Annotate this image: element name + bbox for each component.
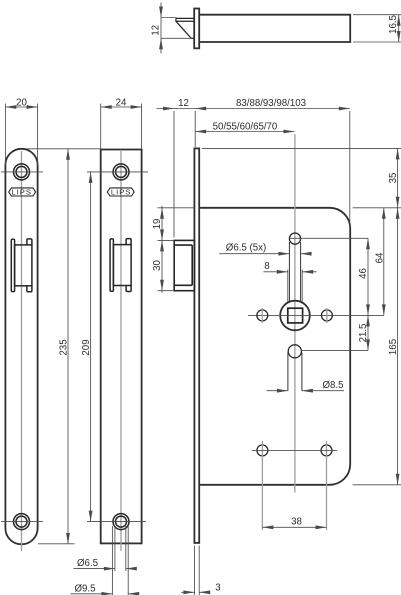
top view: lock case body (side) bbox=[199, 15, 350, 42]
svg-text:12: 12 bbox=[151, 25, 162, 36]
bottom left screw hole bbox=[257, 441, 268, 530]
svg-text:Ø6.5 (5x): Ø6.5 (5x) bbox=[226, 242, 266, 253]
dimension 19 (case top to latch) bbox=[152, 206, 194, 293]
right faceplate outline (24 mm, square ends) bbox=[101, 150, 142, 544]
svg-text:165: 165 bbox=[388, 339, 399, 355]
spindle square hole bbox=[288, 308, 303, 323]
svg-text:21.5: 21.5 bbox=[358, 324, 369, 343]
follower circle bbox=[280, 301, 310, 331]
hub hole extension line to dim 46 bbox=[289, 237, 368, 239]
main vertical centerline bbox=[294, 134, 296, 493]
right faceplate vertical centerline bbox=[120, 151, 122, 551]
svg-text:Ø6.5: Ø6.5 bbox=[77, 558, 98, 569]
leader diameter 6.5 (5x) bbox=[219, 242, 311, 255]
svg-text:30: 30 bbox=[152, 260, 163, 271]
svg-text:16.5: 16.5 bbox=[388, 15, 399, 34]
dimension 235 (left plate length) bbox=[25, 149, 101, 544]
svg-text:209: 209 bbox=[81, 339, 92, 355]
latch bolt (front view) bbox=[174, 240, 194, 290]
lower slot bbox=[288, 353, 302, 391]
svg-text:3: 3 bbox=[215, 582, 220, 593]
dimension 50/55/60/65/70 (backset) bbox=[195, 122, 294, 134]
left side hole diameter 6.5 bbox=[257, 308, 268, 323]
square extension lines for dim 8 bbox=[288, 270, 302, 304]
dimension diameter 6.5 (screw hole) bbox=[74, 526, 137, 571]
svg-text:8: 8 bbox=[264, 261, 269, 272]
bottom right screw hole bbox=[321, 441, 332, 530]
svg-text:20: 20 bbox=[16, 98, 27, 109]
dimension 20 (left plate width) bbox=[5, 98, 37, 166]
svg-text:235: 235 bbox=[59, 339, 70, 355]
left faceplate vertical centerline bbox=[21, 151, 23, 551]
lock case outline bbox=[199, 208, 350, 485]
dimension 12 (top view latch height) bbox=[151, 3, 193, 54]
right plate latch cutout bbox=[110, 239, 131, 292]
dimension 8 (spindle square) bbox=[263, 261, 316, 274]
LIPS logo right plate bbox=[107, 188, 134, 197]
left plate bottom screw hole bbox=[1, 514, 43, 530]
svg-text:12: 12 bbox=[178, 98, 189, 109]
lower hole diameter 8.5 bbox=[288, 345, 301, 358]
svg-text:35: 35 bbox=[388, 173, 399, 184]
dimension diameter 8.5 (cylinder slot) bbox=[267, 380, 345, 392]
dimension 165 (case height) bbox=[353, 208, 401, 485]
dimension 64 (case top to follower) bbox=[353, 208, 401, 316]
upper slot bbox=[289, 242, 300, 301]
dimension 46 (hub hole to follower) bbox=[358, 238, 370, 350]
lower hole extension line to dim 21.5 bbox=[302, 349, 368, 351]
dimension 12 (latch protrusion, main view) bbox=[157, 98, 350, 237]
dimension diameter 9.5 (countersink) bbox=[71, 526, 140, 595]
svg-text:38: 38 bbox=[291, 517, 302, 528]
svg-text:Ø8.5: Ø8.5 bbox=[322, 380, 343, 391]
top view: faceplate (side) bbox=[194, 9, 199, 49]
left plate latch cutout bbox=[11, 239, 32, 292]
dimension 83/88/93/98/103 (case depth) bbox=[236, 98, 350, 228]
dimension 38 (bottom hole spacing) bbox=[262, 517, 326, 530]
dimension 24 (right plate width) bbox=[101, 98, 142, 149]
svg-text:24: 24 bbox=[116, 98, 127, 109]
right plate bottom screw hole bbox=[113, 514, 129, 530]
top view: latch bolt (side) bbox=[176, 18, 194, 38]
svg-text:64: 64 bbox=[374, 252, 385, 263]
left plate top screw hole bbox=[1, 164, 43, 180]
left faceplate outline (20 mm, rounded ends) bbox=[5, 149, 37, 545]
LIPS logo left plate bbox=[9, 188, 36, 197]
dimension 3 (faceplate thickness) bbox=[181, 546, 220, 595]
svg-text:LIPS: LIPS bbox=[11, 188, 32, 197]
dimension 16.5 (top view case thickness) bbox=[353, 15, 401, 42]
dimension 21.5 (follower to lower hole) bbox=[358, 315, 370, 350]
dimension 209 (screw hole spacing) bbox=[81, 172, 148, 522]
svg-text:19: 19 bbox=[152, 219, 163, 230]
svg-text:46: 46 bbox=[358, 268, 369, 279]
dimension 30 (latch height) bbox=[152, 240, 174, 290]
svg-text:50/55/60/65/70: 50/55/60/65/70 bbox=[213, 122, 278, 133]
right plate top screw hole bbox=[113, 164, 129, 180]
follower horizontal centerline bbox=[248, 314, 384, 316]
main view faceplate bar bbox=[194, 148, 199, 543]
hub hole (top, one of 5x diameter 6.5) bbox=[289, 233, 300, 244]
bottom holes horizontal centerline bbox=[252, 449, 337, 451]
right side hole diameter 6.5 bbox=[321, 308, 332, 323]
svg-text:Ø9.5: Ø9.5 bbox=[74, 583, 95, 594]
dimension 35 (plate top to case top) bbox=[202, 148, 401, 207]
svg-text:LIPS: LIPS bbox=[111, 188, 132, 197]
svg-text:83/88/93/98/103: 83/88/93/98/103 bbox=[236, 98, 306, 109]
